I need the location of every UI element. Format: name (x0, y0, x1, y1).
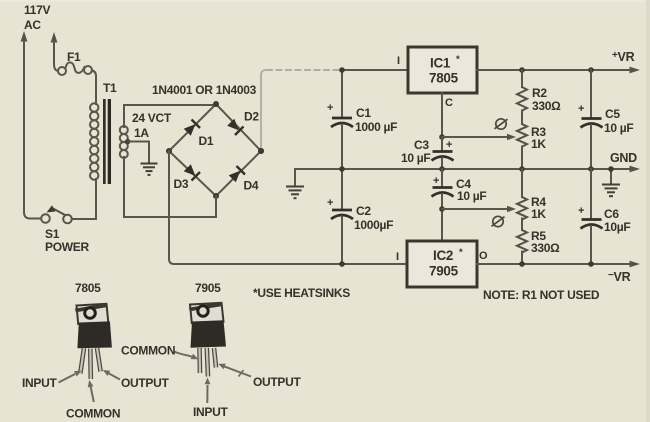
capacitor C6 (578, 169, 630, 264)
svg-text:OUTPUT: OUTPUT (253, 375, 302, 389)
resistor R5 (517, 219, 560, 265)
svg-text:117V: 117V (24, 3, 50, 17)
node: R5 bottom junction (519, 261, 525, 267)
center tap ground wire (128, 142, 149, 163)
117V left lead arrow (21, 31, 41, 219)
svg-text:C5: C5 (605, 107, 620, 121)
wire secondary top to bridge (124, 104, 216, 106)
svg-text:O: O (479, 250, 488, 262)
diode D4 (227, 161, 266, 200)
svg-text:C1: C1 (356, 106, 371, 120)
node: C3 junction (439, 134, 445, 140)
+VR arrow (630, 67, 641, 74)
svg-text:I: I (396, 251, 399, 263)
7805 package pinout (22, 281, 170, 421)
svg-text:NOTE: R1 NOT USED: NOTE: R1 NOT USED (483, 288, 600, 302)
op IC1 7805 regulator (397, 47, 477, 109)
svg-text:OUTPUT: OUTPUT (121, 376, 170, 390)
svg-text:7905: 7905 (429, 264, 459, 279)
svg-text:10µF: 10µF (604, 220, 630, 234)
R3 wiper arrow (442, 134, 516, 140)
node: bridge left (166, 148, 172, 154)
node: C2 bottom junction (339, 261, 345, 267)
node: R2 top junction (519, 67, 525, 73)
input arrow 7805 (59, 371, 82, 383)
117V right lead arrow to fuse (51, 32, 58, 71)
label 117V AC (24, 3, 50, 32)
common arrow 7905 (174, 352, 198, 360)
svg-text:C2: C2 (356, 204, 371, 218)
7905 leads (200, 348, 217, 377)
label 24 VCT 1A (132, 111, 172, 140)
svg-text:S1: S1 (45, 227, 60, 241)
capacitor C5 (578, 70, 633, 169)
R4 wiper arrow (442, 206, 516, 212)
svg-text:D2: D2 (244, 110, 259, 124)
7805 body (77, 321, 112, 348)
ground (filter mid) (286, 169, 304, 198)
GND rail (295, 168, 631, 170)
7805 leads (80, 348, 100, 379)
wire + rail into IC1 (341, 69, 408, 71)
svg-text:+: + (446, 139, 452, 151)
node: C4 junction (439, 206, 445, 212)
7905 package pinout (121, 281, 302, 419)
+VR output rail (477, 69, 631, 71)
-VR arrow (630, 261, 641, 268)
svg-text:*USE HEATSINKS: *USE HEATSINKS (253, 286, 350, 300)
svg-text:D3: D3 (174, 177, 189, 191)
svg-text:10 µF: 10 µF (604, 121, 633, 135)
svg-text:1K: 1K (531, 137, 546, 151)
switch S1 (41, 205, 89, 254)
input arrow 7905 (205, 378, 211, 404)
output arrow 7905 (218, 364, 251, 377)
svg-text:COMMON: COMMON (66, 407, 120, 421)
svg-text:+: + (578, 103, 584, 115)
svg-text:7905: 7905 (195, 281, 221, 295)
op IC2 7905 regulator (396, 241, 488, 287)
svg-text:POWER: POWER (45, 240, 89, 254)
capacitor C4 (432, 169, 487, 241)
7905 tab (190, 303, 224, 323)
wire bridge right node up to + rail (faded in scan) (261, 70, 266, 148)
svg-text:R2: R2 (532, 86, 547, 100)
svg-text:24 VCT: 24 VCT (132, 111, 172, 125)
svg-text:7805: 7805 (75, 281, 101, 295)
svg-text:1N4001 OR 1N4003: 1N4001 OR 1N4003 (152, 83, 257, 97)
svg-text:INPUT: INPUT (193, 405, 228, 419)
diode bridge wires (169, 104, 261, 196)
diode D2 (227, 102, 267, 142)
core (103, 99, 106, 184)
secondary coil (120, 126, 128, 158)
svg-text:1000 µF: 1000 µF (355, 120, 397, 134)
svg-text:T1: T1 (103, 81, 117, 95)
wire bridge bottom to secondary bottom (124, 196, 216, 217)
output arrow 7805 (103, 370, 120, 380)
node: bridge top (213, 101, 219, 107)
svg-text:+: + (327, 102, 333, 114)
svg-text:+: + (327, 197, 333, 209)
node: R3 GND junction (519, 166, 525, 172)
resistor R3 (pot) (517, 111, 546, 170)
capacitor C2 (327, 169, 393, 264)
wire bridge left node down to - rail (169, 151, 407, 264)
7805 tab (77, 304, 109, 324)
svg-text:C: C (445, 97, 453, 109)
svg-text:1A: 1A (134, 126, 149, 140)
fuse F1 (58, 50, 96, 104)
7905 mounting hole (198, 306, 208, 316)
node: C6 bottom junction (588, 261, 594, 267)
IC1 common pin wire (441, 93, 443, 137)
svg-text:1K: 1K (531, 207, 546, 221)
svg-text:C6: C6 (604, 207, 619, 221)
svg-text:7805: 7805 (429, 71, 459, 86)
svg-text:+: + (433, 175, 439, 187)
svg-text:D1: D1 (199, 134, 214, 148)
resistor R4 (pot) (517, 169, 546, 221)
svg-text:I: I (397, 55, 400, 67)
svg-text:COMMON: COMMON (121, 344, 175, 358)
GND arrow (630, 166, 641, 173)
svg-text:330Ω: 330Ω (531, 241, 560, 255)
capacitor C3 (401, 137, 454, 169)
transformer T1 (90, 81, 130, 217)
diode D3 (167, 161, 204, 198)
primary coil (90, 103, 98, 179)
svg-text:1000µF: 1000µF (354, 218, 393, 232)
node: C5 GND junction (588, 166, 594, 172)
svg-text:IC1: IC1 (430, 56, 451, 71)
resistor R2 (517, 70, 561, 113)
node: bridge right (overdraw) (258, 148, 264, 154)
ground (center tap) (141, 164, 158, 175)
svg-text:10 µF: 10 µF (457, 189, 486, 203)
node: C3 GND junction (439, 166, 445, 172)
svg-text:C3: C3 (414, 138, 429, 152)
common arrow 7805 (88, 380, 94, 402)
svg-text:10 µF: 10 µF (401, 151, 430, 165)
svg-text:D4: D4 (244, 179, 259, 193)
7805 mounting hole (85, 308, 96, 319)
-VR output rail (477, 263, 631, 265)
svg-text:*: * (456, 54, 460, 65)
adjust symbol R3 (495, 119, 508, 129)
node: C1-C2 GND junction (339, 166, 345, 172)
wire switch to transformer primary bottom (72, 179, 96, 219)
svg-text:AC: AC (24, 18, 41, 32)
node: bridge right (258, 148, 264, 154)
adjust symbol R4 (492, 216, 505, 226)
svg-text:GND: GND (610, 151, 637, 165)
svg-text:330Ω: 330Ω (532, 99, 561, 113)
node: C5 top junction (588, 67, 594, 73)
center tap node (125, 139, 130, 144)
svg-text:+: + (578, 205, 584, 217)
svg-text:IC2: IC2 (433, 248, 453, 263)
ground (output) (602, 166, 620, 196)
svg-text:*: * (459, 247, 463, 258)
node: bridge bottom (213, 193, 219, 199)
svg-text:INPUT: INPUT (22, 376, 57, 390)
diode D1 (181, 116, 221, 156)
7905 body (191, 320, 227, 348)
capacitor C1 (327, 70, 397, 169)
node: C1 top junction (339, 67, 345, 73)
